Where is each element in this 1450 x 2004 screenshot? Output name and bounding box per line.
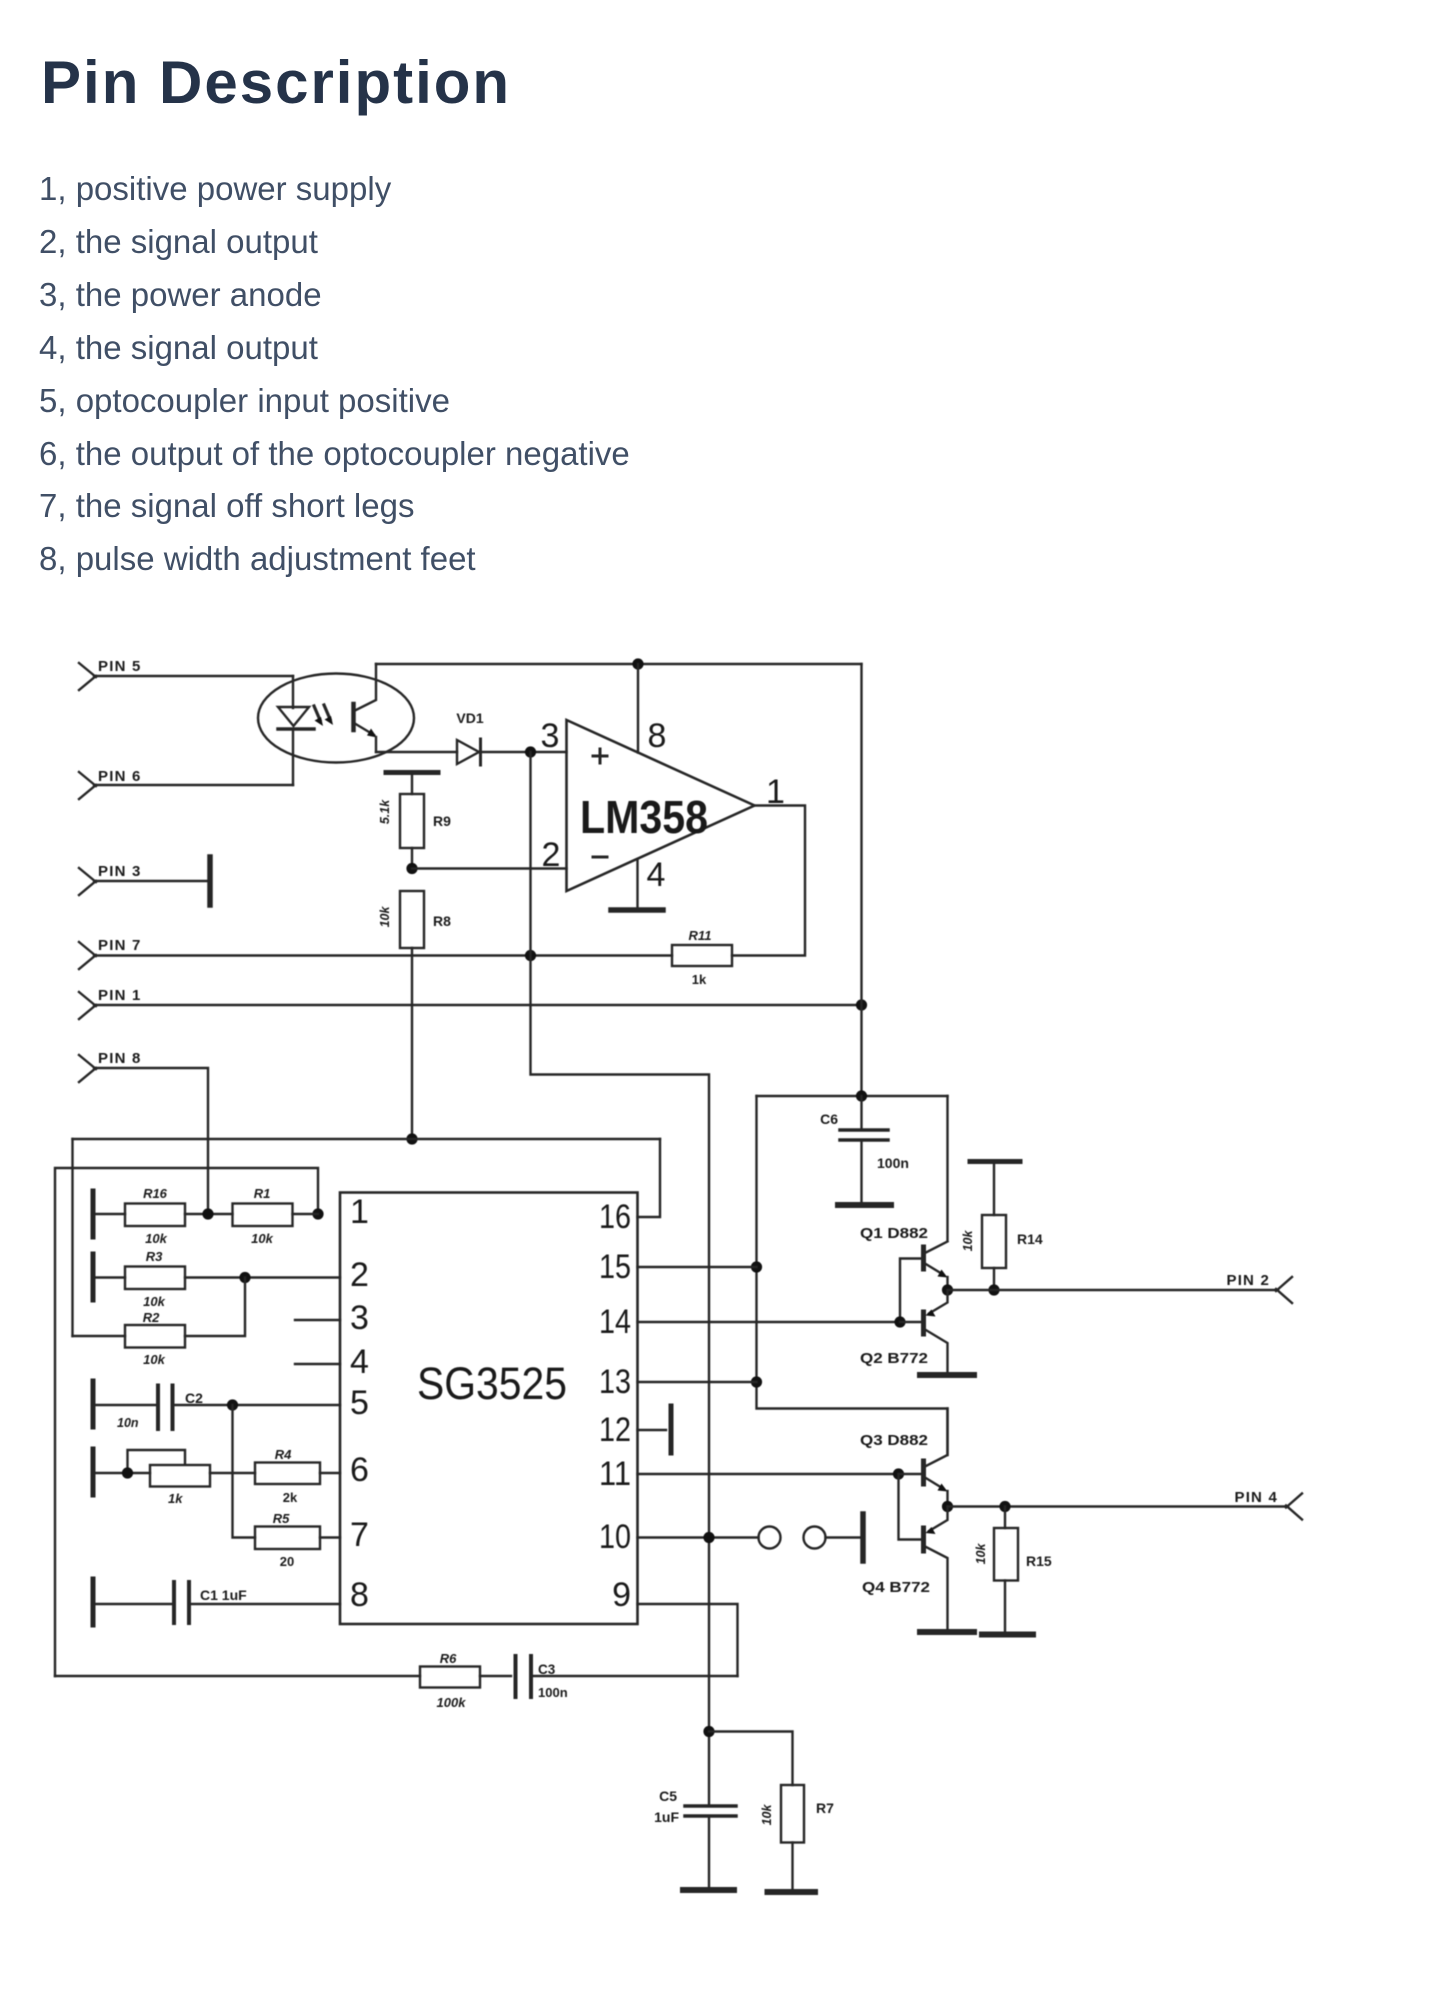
node PIN 1 connector xyxy=(79,987,142,1019)
svg-text:R7: R7 xyxy=(816,1800,834,1816)
svg-text:5: 5 xyxy=(350,1384,369,1422)
svg-text:R15: R15 xyxy=(1026,1553,1052,1569)
svg-text:11: 11 xyxy=(599,1455,631,1493)
wire bottom compensation run xyxy=(55,1675,420,1677)
wire PIN3 stub xyxy=(94,880,207,882)
junction C5/R7 node xyxy=(703,1726,714,1737)
svg-text:3: 3 xyxy=(350,1299,369,1337)
svg-text:Q4 B772: Q4 B772 xyxy=(862,1579,930,1596)
svg-text:6: 6 xyxy=(350,1451,369,1489)
transistor Q4 B772 xyxy=(862,1474,948,1628)
pin number 6 xyxy=(350,1451,369,1489)
node PIN 5 connector xyxy=(79,658,142,690)
pin number 4 xyxy=(350,1343,369,1381)
svg-text:C2: C2 xyxy=(185,1390,203,1406)
junction Q1/Q2 emitters xyxy=(942,1284,953,1295)
svg-text:7: 7 xyxy=(350,1516,369,1554)
svg-text:PIN 2: PIN 2 xyxy=(1226,1272,1270,1289)
pin number 16 xyxy=(599,1198,631,1236)
junction R9/R8 divider xyxy=(406,863,417,874)
svg-text:10k: 10k xyxy=(961,1230,975,1252)
wire pin10 lead xyxy=(638,1536,759,1538)
junction PIN1/V+ xyxy=(856,999,867,1010)
wire pin16 to top rail xyxy=(638,1139,661,1217)
wire PIN1 to V+ rail xyxy=(94,1004,862,1006)
wire PIN4 output line xyxy=(948,1505,1289,1507)
node PIN 7 connector xyxy=(79,937,142,969)
resistor R15 10k xyxy=(974,1507,1052,1633)
svg-text:1uF: 1uF xyxy=(654,1809,679,1825)
svg-text:1: 1 xyxy=(350,1193,369,1231)
terminal bar PIN3 xyxy=(207,857,213,905)
pin number 11 xyxy=(599,1455,631,1493)
wire divider to op-amp pin2 xyxy=(412,867,567,869)
wire compensation outer rail xyxy=(55,1168,318,1676)
svg-text:C6: C6 xyxy=(820,1111,838,1127)
pin number 10 xyxy=(599,1518,631,1556)
potentiometer 1k xyxy=(96,1450,211,1506)
svg-text:100n: 100n xyxy=(877,1155,909,1171)
wire Q1 collector to rail xyxy=(946,1096,948,1241)
svg-text:VD1: VD1 xyxy=(456,710,483,726)
svg-text:2k: 2k xyxy=(283,1490,298,1505)
switch contact A xyxy=(759,1527,781,1549)
pin number 7 xyxy=(350,1516,369,1554)
pin number 12 xyxy=(599,1411,631,1449)
svg-text:4: 4 xyxy=(647,856,666,894)
wire op-amp output xyxy=(732,806,805,956)
transistor Q1 D882 xyxy=(860,1225,948,1322)
svg-text:R8: R8 xyxy=(433,913,451,929)
pin number 3 xyxy=(350,1299,369,1337)
ground op-amp xyxy=(611,907,663,913)
switch contact B xyxy=(804,1527,826,1549)
svg-text:R14: R14 xyxy=(1017,1231,1043,1247)
ground Q2 xyxy=(920,1372,974,1378)
capacitor C5 1uF xyxy=(654,1788,736,1825)
svg-text:PIN 3: PIN 3 xyxy=(98,863,142,880)
transistor Q2 B772 xyxy=(860,1290,948,1372)
svg-text:1k: 1k xyxy=(692,972,707,987)
wire PIN8 down to R16/R1 junction xyxy=(94,1068,208,1214)
svg-text:10k: 10k xyxy=(143,1294,165,1309)
terminal bar left of pot xyxy=(91,1449,96,1495)
junction C6 top xyxy=(856,1090,867,1101)
wire top supply rail xyxy=(376,663,862,665)
svg-text:Q2 B772: Q2 B772 xyxy=(860,1350,928,1367)
svg-text:9: 9 xyxy=(612,1576,631,1614)
node PIN 3 connector xyxy=(79,863,142,895)
junction pin1 node xyxy=(312,1208,323,1219)
svg-text:10k: 10k xyxy=(760,1804,774,1826)
junction comparator + input xyxy=(525,746,536,757)
pin number 13 xyxy=(599,1363,631,1401)
capacitor C1 1uF xyxy=(96,1582,341,1623)
terminal bar left of R3 xyxy=(91,1254,96,1300)
svg-text:C1 1uF: C1 1uF xyxy=(200,1587,247,1603)
wire PIN2 output line xyxy=(948,1289,1279,1291)
wire pin9 loop xyxy=(638,1604,738,1676)
resistor R9 5.1k xyxy=(378,775,451,869)
wire comparator node down xyxy=(531,752,710,1889)
svg-text:R3: R3 xyxy=(146,1249,163,1264)
svg-text:10k: 10k xyxy=(145,1231,167,1246)
wire pin13 lead xyxy=(638,1381,757,1383)
junction R15/PIN4 xyxy=(999,1501,1010,1512)
wire PIN6 to optocoupler cathode xyxy=(94,784,293,786)
optocoupler U3 ellipse xyxy=(258,674,414,763)
junction pin13 tie xyxy=(751,1376,762,1387)
wire PIN5 to optocoupler anode xyxy=(94,675,293,677)
resistor R16 10k xyxy=(96,1186,233,1246)
resistor R7 10k xyxy=(760,1785,834,1889)
light arrows xyxy=(314,705,333,726)
resistor R8 10k xyxy=(378,891,451,1139)
ground C5 xyxy=(683,1887,734,1893)
svg-text:PIN 6: PIN 6 xyxy=(98,768,142,785)
svg-text:2: 2 xyxy=(542,836,561,874)
svg-text:12: 12 xyxy=(599,1411,631,1449)
LED inside optocoupler xyxy=(278,676,314,785)
pin number 8 xyxy=(350,1576,369,1614)
wire V+ vertical rail xyxy=(860,664,862,1096)
junction op-amp V+ tap xyxy=(632,658,643,669)
phototransistor inside optocoupler xyxy=(354,664,378,752)
svg-text:R5: R5 xyxy=(273,1511,290,1526)
svg-text:R6: R6 xyxy=(440,1651,457,1666)
junction R8 rail tap xyxy=(71,1139,73,1336)
junction R14/PIN2 xyxy=(988,1284,999,1295)
svg-text:LM358: LM358 xyxy=(580,791,708,843)
svg-text:14: 14 xyxy=(599,1303,631,1341)
svg-text:R4: R4 xyxy=(275,1447,292,1462)
junction R3/R2 node xyxy=(239,1272,250,1283)
terminal bar pin12 xyxy=(669,1406,674,1453)
wire VD1 to op-amp pin3 xyxy=(481,751,567,753)
capacitor C2 10n xyxy=(96,1386,341,1431)
junction pin10/C5 tap xyxy=(703,1532,714,1543)
ground Q4 xyxy=(920,1629,974,1635)
terminal bar above R9 xyxy=(386,770,438,775)
junction Q3/Q4 base tie xyxy=(893,1468,904,1479)
wire pin4 stub xyxy=(295,1363,340,1365)
svg-text:PIN 5: PIN 5 xyxy=(98,658,142,675)
resistor R6 100k xyxy=(420,1651,511,1710)
diode VD1 xyxy=(456,710,483,765)
svg-text:R9: R9 xyxy=(433,813,451,829)
terminal bar left of C2 xyxy=(91,1381,96,1427)
svg-text:R11: R11 xyxy=(689,928,712,943)
wire collector supply rail xyxy=(757,1095,948,1097)
svg-text:100n: 100n xyxy=(538,1685,568,1700)
wire pin12 stub xyxy=(638,1429,667,1431)
junction C2/pin5 node xyxy=(227,1399,238,1410)
svg-text:8: 8 xyxy=(648,717,667,755)
junction R8 bottom rail xyxy=(406,1133,417,1144)
wire pin5 node down to R5 xyxy=(233,1405,256,1538)
pin number 9 xyxy=(612,1576,631,1614)
resistor R11 1k xyxy=(672,928,732,987)
svg-text:16: 16 xyxy=(599,1198,631,1236)
capacitor C3 100n xyxy=(516,1656,738,1700)
svg-text:2: 2 xyxy=(350,1256,369,1294)
svg-text:Q1 D882: Q1 D882 xyxy=(860,1225,928,1242)
svg-text:C3: C3 xyxy=(538,1662,556,1677)
svg-text:4: 4 xyxy=(350,1343,369,1381)
pin number 5 xyxy=(350,1384,369,1422)
junction PIN7/comparator node xyxy=(525,950,536,961)
junction pot wiper xyxy=(122,1467,133,1478)
node PIN 4 connector xyxy=(1234,1489,1302,1520)
ground R7 xyxy=(768,1889,816,1895)
resistor R4 2k xyxy=(210,1447,340,1505)
junction PIN8/R16/R1 xyxy=(202,1208,213,1219)
IC U2 SG3525 xyxy=(340,1193,638,1625)
svg-text:10n: 10n xyxy=(117,1416,139,1430)
svg-text:PIN 4: PIN 4 xyxy=(1234,1489,1278,1506)
pin number 2 xyxy=(350,1256,369,1294)
wire switch to bar xyxy=(826,1536,861,1538)
terminal bar switch xyxy=(860,1514,866,1561)
svg-text:PIN 7: PIN 7 xyxy=(98,937,142,954)
wire pin14 to Q1/Q2 bases xyxy=(638,1321,901,1323)
svg-text:13: 13 xyxy=(599,1363,631,1401)
svg-text:10k: 10k xyxy=(143,1352,165,1367)
node PIN 8 connector xyxy=(79,1050,142,1082)
wire pin3 stub xyxy=(295,1319,340,1321)
wire to R7 xyxy=(709,1732,793,1786)
node PIN 6 connector xyxy=(79,768,142,799)
wire op-amp pin4 ground lead xyxy=(636,859,638,908)
pin number 15 xyxy=(599,1248,631,1286)
ground R15 xyxy=(982,1632,1033,1638)
svg-text:3: 3 xyxy=(541,717,560,755)
resistor R14 10k xyxy=(961,1164,1043,1290)
resistor R2 10k xyxy=(73,1278,246,1368)
wire Vc rail down (pin15/pin13 tie) xyxy=(757,1096,948,1455)
svg-text:R2: R2 xyxy=(143,1310,160,1325)
terminal bar left of C1 xyxy=(91,1579,96,1625)
svg-text:10k: 10k xyxy=(378,906,392,928)
capacitor C6 100n xyxy=(820,1096,909,1202)
node PIN 2 connector xyxy=(1226,1272,1292,1303)
svg-text:10k: 10k xyxy=(251,1231,273,1246)
op-amp U1 LM358 xyxy=(541,717,785,894)
junction Q3/Q4 emitters xyxy=(942,1501,953,1512)
svg-text:PIN 1: PIN 1 xyxy=(98,987,142,1004)
svg-text:C5: C5 xyxy=(659,1788,677,1804)
svg-text:100k: 100k xyxy=(437,1695,467,1710)
wire upper distribution rail xyxy=(73,1138,661,1140)
resistor R1 10k xyxy=(233,1186,319,1246)
resistor R5 20 xyxy=(255,1511,340,1569)
transistor Q3 D882 xyxy=(860,1409,948,1507)
ground C6 xyxy=(838,1202,891,1208)
svg-text:SG3525: SG3525 xyxy=(417,1358,567,1409)
svg-text:R16: R16 xyxy=(143,1186,168,1201)
terminal bar left of R16 xyxy=(91,1191,96,1237)
svg-text:10: 10 xyxy=(599,1518,631,1556)
svg-text:R1: R1 xyxy=(254,1186,271,1201)
pin number 14 xyxy=(599,1303,631,1341)
resistor R3 10k xyxy=(96,1249,341,1309)
wire op-amp pin8 supply lead xyxy=(637,664,639,753)
svg-text:5.1k: 5.1k xyxy=(378,799,392,824)
svg-text:8: 8 xyxy=(350,1576,369,1614)
pin number 1 xyxy=(350,1193,369,1231)
svg-text:Q3 D882: Q3 D882 xyxy=(860,1432,928,1449)
svg-text:15: 15 xyxy=(599,1248,631,1286)
wire PIN7 to R11 xyxy=(94,954,672,956)
wire opto emitter to VD1 xyxy=(376,751,457,753)
svg-text:PIN 8: PIN 8 xyxy=(98,1050,142,1067)
wire pin15 lead xyxy=(638,1266,757,1268)
svg-text:1k: 1k xyxy=(168,1491,183,1506)
terminal bar above R14 xyxy=(970,1159,1020,1164)
wire pin11 to Q3 base xyxy=(638,1473,899,1475)
svg-text:20: 20 xyxy=(280,1554,294,1569)
svg-text:10k: 10k xyxy=(974,1543,988,1565)
junction pin15 tie xyxy=(751,1261,762,1272)
junction base tie Q1/Q2 xyxy=(894,1316,905,1327)
